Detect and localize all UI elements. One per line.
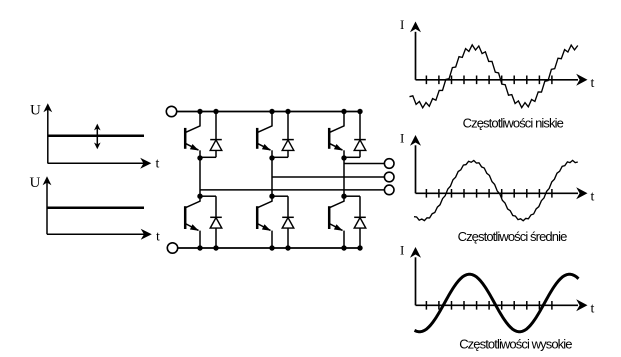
junction: collector Q5 to + rail [341,109,346,114]
svg-text:Częstotliwości wysokie: Częstotliwości wysokie [459,336,572,351]
diode D4 (lower, leg V) [282,196,294,248]
junction: cathode D3 to + rail [285,109,290,114]
svg-text:U: U [30,103,41,119]
svg-text:t: t [591,189,595,204]
junction: phase node U (upper) [197,155,202,160]
negative DC rail [178,247,362,249]
svg-text:t: t [591,301,595,316]
diode D5 (upper, leg W) [354,112,366,158]
diode D6 (lower, leg W) [354,196,366,248]
transistor Q1 (upper, leg U) [185,112,200,159]
junction: anode D2 to - rail [213,245,218,250]
svg-text:U: U [30,175,41,191]
wire: phase leg W vertical [343,158,345,196]
variable voltage double arrow [94,124,101,150]
junction: emitter Q2 to - rail [197,245,202,250]
DC input terminal (top) [166,106,176,116]
junction: phase node U (lower) [197,194,202,199]
wire: phase leg V vertical [271,158,273,196]
I axis (plot 2) [410,135,421,193]
time scale ticks (plot 1) [426,76,552,85]
junction: collector Q1 to + rail [197,109,202,114]
diode D3 (upper, leg V) [282,112,294,158]
wire: phase leg U vertical [199,158,201,196]
transistor Q4 (lower, leg V) [257,196,272,248]
svg-text:t: t [156,230,160,245]
diode D1 (upper, leg U) [210,112,222,158]
DC input terminal (bottom) [167,243,177,253]
transistor Q3 (upper, leg V) [257,112,272,159]
t axis (plot 1) [416,74,588,86]
junction: emitter Q4 to - rail [269,245,274,250]
wire: anode D5 to phase node W [344,156,360,158]
junction: cathode D1 to + rail [213,109,218,114]
AC output terminal 1 [384,159,394,169]
transistor Q5 (upper, leg W) [329,112,344,159]
voltage level line (graph 1) [48,135,144,138]
time scale ticks (plot 3) [426,301,552,310]
junction: phase node W (lower) [341,194,346,199]
U axis (graph 2) [43,176,52,234]
I axis (plot 1) [410,22,421,80]
AC output terminal 3 [384,185,394,195]
svg-text:t: t [591,76,595,91]
voltage level line (graph 2) [47,207,144,210]
wire: phase U to AC terminal 3 [200,189,384,191]
time scale ticks (plot 2) [426,189,552,198]
wire: phase node U to cathode D2 [200,195,216,197]
wire: phase W to AC terminal 1 [344,163,384,165]
junction: phase node V (lower) [269,194,274,199]
junction: anode D4 to - rail [285,245,290,250]
t axis (graph 1) [48,158,152,169]
I axis (plot 3) [410,247,421,305]
junction: collector Q3 to + rail [269,109,274,114]
wire: phase V to AC terminal 2 [272,176,384,178]
t axis (graph 2) [47,229,152,240]
diode D2 (lower, leg U) [210,196,222,248]
svg-text:t: t [156,157,160,172]
svg-text:I: I [400,131,404,146]
current waveform (plot 1): low-frequency sine [410,45,578,108]
junction: emitter Q6 to - rail [341,245,346,250]
svg-text:I: I [400,243,404,258]
transistor Q2 (lower, leg U) [185,196,200,248]
wire: anode D3 to phase node V [272,156,288,158]
svg-text:I: I [400,17,404,32]
U axis (graph 1) [43,103,52,163]
junction: cathode D5 to + rail [357,109,362,114]
t axis (plot 2) [416,187,588,199]
transistor Q6 (lower, leg W) [329,196,344,248]
svg-text:Częstotliwości niskie: Częstotliwości niskie [463,116,564,131]
positive DC rail [177,111,362,113]
t axis (plot 3) [416,299,588,311]
junction: anode D6 to - rail [357,245,362,250]
AC output terminal 2 [384,172,394,182]
current waveform (plot 3): high-frequency sine [415,274,579,331]
junction: phase node V (upper) [269,155,274,160]
current waveform (plot 2): mid-frequency sine [414,160,578,220]
junction: phase node W (upper) [341,155,346,160]
svg-text:Częstotliwości średnie: Częstotliwości średnie [458,229,567,244]
wire: anode D1 to phase node U [200,156,216,158]
wire: phase node W to cathode D6 [344,195,360,197]
wire: phase node V to cathode D4 [272,195,288,197]
